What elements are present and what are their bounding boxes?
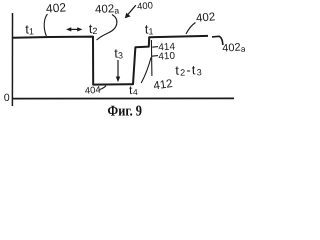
svg-text:404: 404	[84, 85, 101, 97]
svg-text:Фиг. 9: Фиг. 9	[107, 103, 142, 119]
svg-text:400: 400	[137, 0, 154, 12]
svg-text:410: 410	[158, 51, 176, 63]
svg-text:402a: 402a	[95, 3, 120, 17]
svg-text:402: 402	[196, 11, 216, 25]
svg-text:402: 402	[46, 0, 67, 15]
svg-text:402a: 402a	[222, 41, 245, 55]
svg-text:0: 0	[4, 92, 10, 104]
